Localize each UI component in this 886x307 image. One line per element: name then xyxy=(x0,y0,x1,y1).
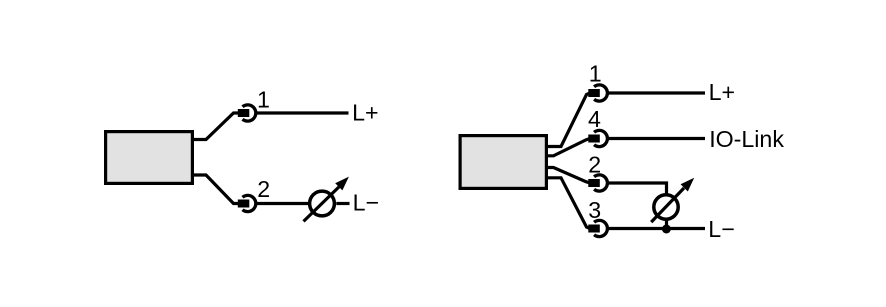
wire body to pin 4 xyxy=(546,139,590,156)
wire pin 2 to analog symbol (right) xyxy=(608,183,667,195)
svg-text:L−: L− xyxy=(708,216,734,242)
svg-text:4: 4 xyxy=(588,106,601,132)
junction node xyxy=(662,225,671,234)
pin 1 (left) xyxy=(238,105,256,121)
wire pin 2 to analog symbol xyxy=(256,202,309,205)
svg-text:2: 2 xyxy=(588,151,601,177)
wire body to pin 2 xyxy=(192,175,239,204)
wire pin 1 to L+ (right) xyxy=(608,91,705,94)
analog output symbol (circle with arrow, left) xyxy=(304,177,349,222)
wire body to pin 3 xyxy=(546,178,590,229)
svg-text:1: 1 xyxy=(589,60,602,86)
wire pin 3 to L- (right) xyxy=(608,227,705,230)
analog output symbol (circle with arrow, right) xyxy=(651,178,694,222)
wire body to pin 2 (right) xyxy=(546,168,590,184)
svg-text:L+: L+ xyxy=(352,99,378,125)
wire pin 1 to L+ xyxy=(256,111,348,114)
svg-text:2: 2 xyxy=(257,176,270,202)
pin 2 (right) xyxy=(588,175,607,191)
pin 2 (left) xyxy=(238,195,256,211)
wire analog symbol to junction xyxy=(665,220,668,229)
svg-text:3: 3 xyxy=(588,197,601,223)
pin 4 (right) xyxy=(588,130,607,146)
svg-text:L+: L+ xyxy=(709,79,735,105)
wire pin 4 to IO-Link xyxy=(608,137,705,140)
pin 3 (right) xyxy=(588,220,607,236)
sensor body U1 (left diagram) xyxy=(106,132,193,184)
svg-text:IO-Link: IO-Link xyxy=(709,126,784,152)
wire body to pin 1 (right) xyxy=(546,93,590,147)
pin 1 (right) xyxy=(588,85,607,101)
sensor body U2 (right diagram) xyxy=(460,136,546,189)
svg-text:L−: L− xyxy=(353,190,379,216)
wire body to pin 1 xyxy=(192,113,239,140)
svg-text:1: 1 xyxy=(257,87,270,113)
wire analog symbol to L- xyxy=(336,202,349,205)
